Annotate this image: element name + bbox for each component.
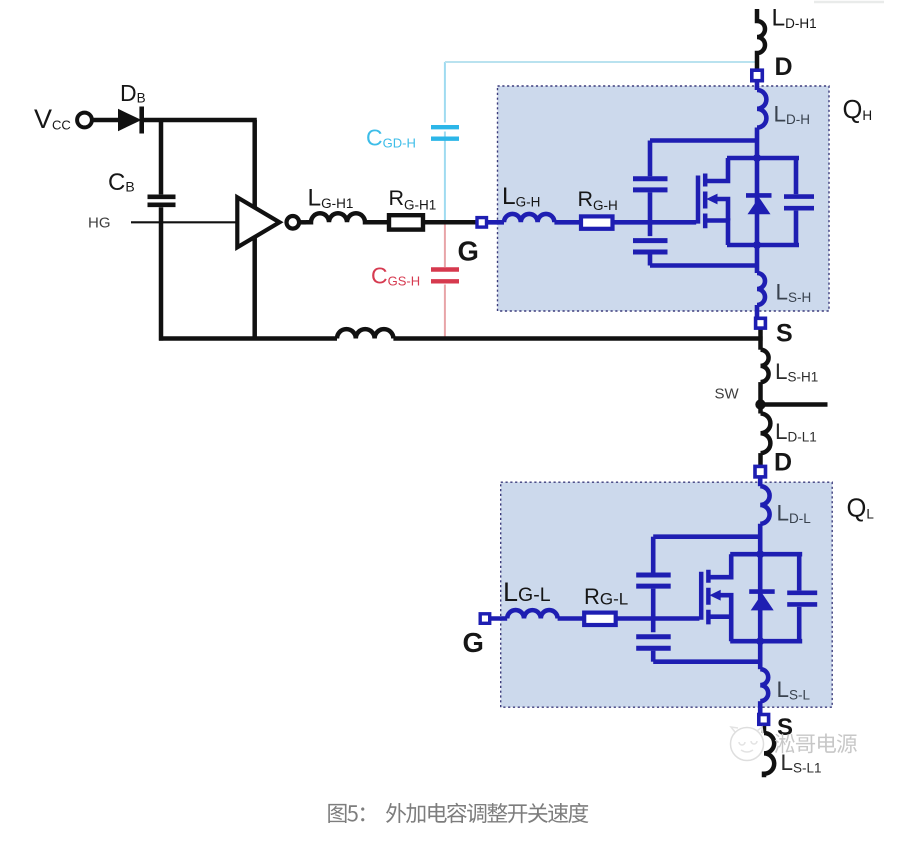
wire CB branch vertical upper [159, 118, 164, 194]
watermark char 源 [837, 734, 857, 754]
wire LS-H1 to SW junction [758, 382, 763, 413]
wire LG-H1 to RG-H1 [368, 220, 389, 225]
wire bottom rail [730, 639, 802, 644]
wire driver supply right vertical [252, 120, 257, 339]
capacitor CGD-H cyan wire vertical [444, 62, 446, 222]
capacitor CDS stub top [797, 554, 802, 590]
junction source-rail dot [753, 241, 761, 249]
wire LG-H2 to source node S [393, 336, 762, 341]
wire LS-H to S square [758, 701, 763, 714]
wire bubble to LG-H1 [299, 220, 306, 225]
wire internal cap branch top [651, 537, 656, 573]
capacitor CDS stub bottom [797, 607, 802, 641]
wire internal cap branch middle [648, 192, 653, 236]
body diode cathode bar [749, 589, 775, 594]
caption char 电 [428, 803, 446, 823]
caption char 容 [447, 803, 467, 823]
node D terminal square [752, 70, 763, 81]
wire HG input [131, 221, 239, 223]
wire bottom connection line [650, 263, 757, 268]
wire diode to loop top [141, 118, 257, 123]
inductor LD-H [757, 90, 766, 128]
svg-text:SW: SW [715, 386, 740, 403]
svg-text:D: D [774, 449, 792, 477]
capacitor CDS stub bottom [794, 211, 799, 245]
caption char 图 [328, 804, 346, 823]
watermark logo circle [731, 727, 764, 761]
wire drain into cell [758, 524, 763, 642]
wire LD-L1 to D node [758, 453, 763, 465]
wire drain top from D square [758, 477, 763, 487]
wire source below cell [758, 641, 763, 669]
transistor QH channel segments [706, 570, 711, 625]
wire internal cap branch middle [651, 589, 656, 633]
resistor RG-H [581, 216, 613, 228]
wire bottom connection line [653, 659, 760, 664]
node S terminal square [756, 318, 766, 328]
driver output bubble [287, 216, 300, 229]
transistor QH drain stub [705, 158, 728, 181]
svg-text:S: S [776, 320, 793, 348]
body diode cathode bar [746, 193, 772, 198]
wire SW branch [761, 402, 828, 407]
wire top connection line [650, 138, 757, 143]
wire drain top from D square [755, 81, 760, 91]
transistor QH body arrow [709, 590, 720, 601]
transistor QH gate bar [699, 572, 704, 620]
wire drain into cell [755, 128, 760, 246]
caption char 速 [548, 803, 568, 823]
inductor LS-H [757, 273, 765, 305]
wire top rail [730, 552, 802, 557]
capacitor CB plates [148, 197, 176, 205]
body diode triangle [751, 593, 774, 610]
transistor QH gate bar [696, 176, 701, 224]
capacitor CGS internal plates [636, 637, 671, 648]
caption char 开 [508, 804, 528, 823]
capacitor CDS stub top [794, 158, 799, 194]
wire RG-H1 to node G [423, 220, 477, 225]
watermark text 淞哥电源 [775, 734, 857, 754]
wire internal cap branch top [648, 141, 653, 177]
wire VCC to diode [92, 118, 119, 123]
junction source-rail dot [756, 637, 764, 645]
inductor LG-H1 [306, 213, 370, 222]
capacitor CGD-H plates [431, 127, 459, 139]
transistor QH body stub [719, 595, 731, 617]
capacitor CGS internal plates [633, 241, 668, 252]
capacitor CGD internal plates [633, 179, 668, 190]
body diode triangle [748, 197, 771, 214]
wire CB branch vertical lower [159, 207, 164, 340]
caption char 外 [386, 803, 406, 823]
wire SL node down [762, 725, 767, 733]
node G terminal square [477, 218, 487, 228]
node S terminal square [759, 715, 769, 725]
caption char 关 [528, 803, 548, 823]
faint top-right artifact line [814, 1, 884, 4]
watermark char 哥 [796, 735, 815, 754]
inductor LD-L1 [761, 414, 771, 454]
capacitor CGS-H plates [431, 270, 459, 282]
svg-text:G: G [463, 627, 484, 658]
svg-text:S: S [777, 714, 793, 741]
MOSFET package box [501, 482, 833, 707]
caption char 加 [406, 803, 425, 823]
MOSFET package box [498, 86, 830, 311]
inductor LG-H [504, 214, 554, 222]
wire LS-H to S square [755, 305, 760, 318]
transistor QH body arrow [706, 194, 717, 205]
wire internal cap branch bottom [651, 651, 656, 662]
capacitor CDS plates [784, 197, 814, 209]
wire bottom rail [727, 243, 799, 248]
wire internal cap branch bottom [648, 255, 653, 266]
transistor QH drain stub [708, 554, 731, 577]
junction SW dot [755, 399, 765, 409]
op-amp driver triangle [237, 197, 279, 247]
svg-text:G: G [458, 236, 479, 267]
wire source below cell [755, 245, 760, 273]
wire G square to inductor [487, 220, 505, 225]
capacitor CGD-H cyan wire horizontal to drain [445, 61, 757, 63]
caption char ： [361, 807, 364, 821]
node G terminal square [480, 614, 490, 624]
wire top connection line [653, 534, 760, 539]
transistor QH source stub [708, 617, 731, 642]
caption char 度 [568, 803, 588, 823]
resistor RG-H1 [389, 215, 423, 229]
inductor LD-H [760, 486, 769, 524]
svg-text:D: D [775, 53, 793, 81]
wire top rail [727, 156, 799, 161]
diode DB [118, 109, 142, 131]
inductor LS-H [760, 669, 768, 701]
transistor QH source stub [705, 221, 728, 246]
junction drain-rail dot [753, 154, 761, 162]
transistor QH channel segments [703, 174, 708, 229]
capacitor CGS-H red wire vertical [444, 222, 446, 338]
wire LG-H to RG-H [558, 616, 585, 621]
diode DB cathode bar [139, 107, 144, 134]
inductor LG-H [507, 610, 557, 618]
wire G square to inductor [490, 616, 508, 621]
caption char 5 [347, 805, 357, 821]
svg-text:HG: HG [88, 215, 111, 232]
inductor LG-H2 [337, 329, 393, 338]
watermark char 电 [818, 734, 836, 753]
wire S node down [758, 329, 763, 350]
caption char 整 [487, 803, 507, 823]
wire LG-H to RG-H [554, 220, 581, 225]
caption 图5：外加电容调整开关速度 [328, 803, 588, 823]
inductor LS-H1 [761, 350, 769, 382]
wire RG-H to gate [613, 220, 697, 225]
inductor LD-H1 top stub [757, 9, 765, 70]
resistor RG-H [584, 613, 616, 625]
node D terminal square [755, 466, 766, 477]
capacitor CGD internal plates [636, 575, 671, 586]
capacitor CDS plates [787, 593, 817, 605]
caption char 调 [467, 804, 486, 824]
watermark char 淞 [775, 734, 795, 754]
terminal VCC circle [77, 113, 92, 128]
junction drain-rail dot [756, 550, 764, 558]
wire source return bottom [159, 336, 337, 341]
inductor LS-L1 [764, 733, 774, 777]
wire RG-H to gate [616, 616, 700, 621]
transistor QH body stub [716, 199, 728, 221]
